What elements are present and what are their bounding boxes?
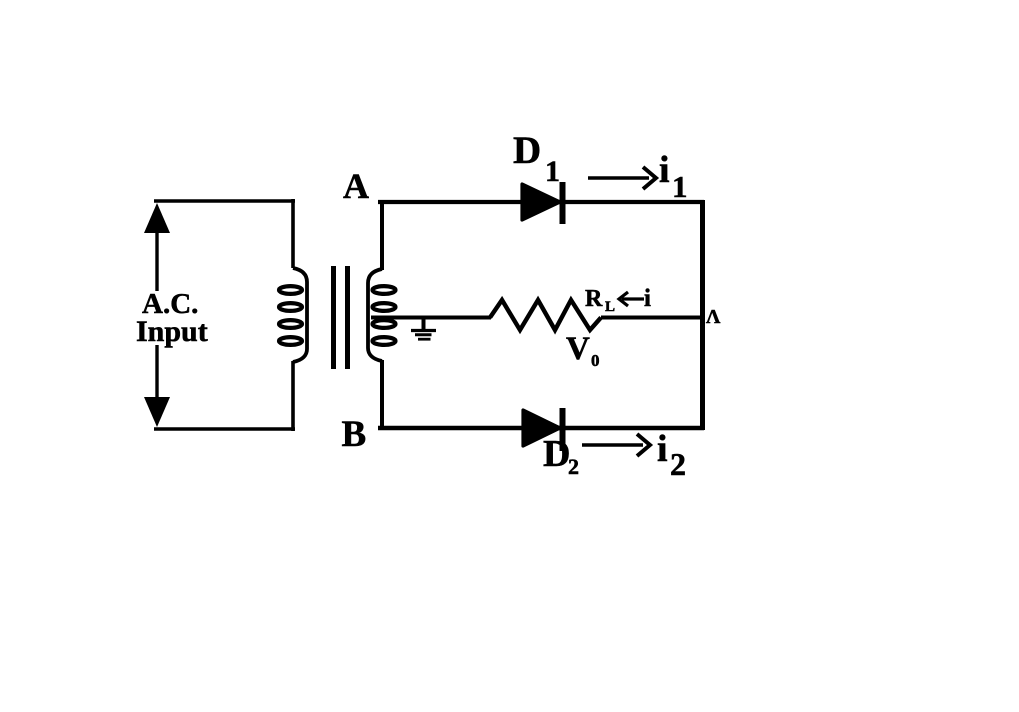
wire: left loop top [154,199,295,202]
svg-text:1: 1 [545,155,560,188]
wire: resistor to right rail [601,316,704,320]
svg-text:D: D [513,129,541,172]
svg-text:2: 2 [568,454,579,479]
transformer primary coil L1 [279,268,307,362]
svg-text:Input: Input [136,315,208,348]
wire: left loop right vertical (bottom) [291,361,295,431]
svg-text:i: i [644,285,651,312]
current arrow i2 [582,434,650,456]
A.C. input double arrow [144,203,170,427]
wire: left loop bottom [154,427,295,431]
svg-text:D: D [543,433,570,475]
current arrow i1 [588,167,656,189]
svg-text:L: L [605,299,615,315]
transformer secondary coil L2 [368,269,396,361]
wire: center tap to resistor [371,316,491,320]
svg-text:Λ: Λ [706,306,721,328]
arrow left with i [619,292,644,306]
wire: bottom rail [378,426,704,430]
svg-text:R: R [585,286,603,312]
svg-text:i: i [659,149,670,191]
svg-text:1: 1 [672,169,688,204]
svg-text:V: V [566,331,590,367]
ground [411,318,436,339]
resistor RL zigzag [490,300,601,330]
svg-text:2: 2 [670,446,686,482]
diode D1 [522,182,566,224]
wire: top rail [378,200,704,204]
svg-text:i: i [657,428,668,470]
svg-text:B: B [342,414,367,455]
diode D2 [523,408,566,451]
wire: secondary top vertical [380,200,384,270]
svg-text:0: 0 [591,351,600,370]
wire: secondary bottom vertical [380,360,384,430]
transformer core [331,266,336,369]
wire: right rail vertical [700,200,705,430]
svg-text:A: A [343,166,369,206]
wire: left loop right vertical (top) [291,199,295,268]
